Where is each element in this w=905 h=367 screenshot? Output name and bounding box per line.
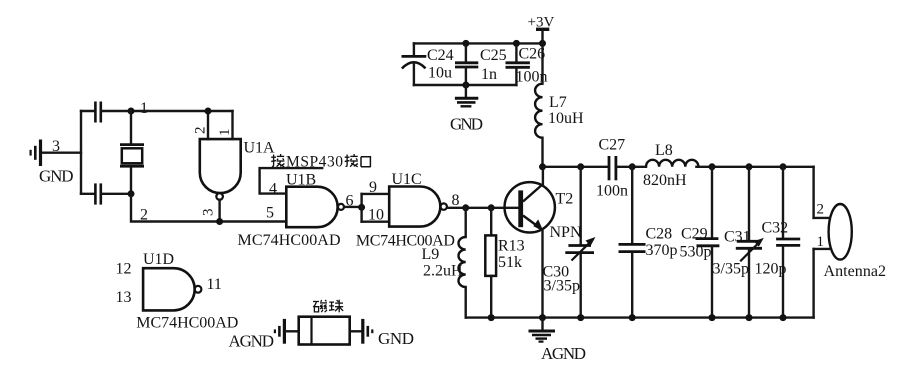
- wire node 2 down and right to U1B pin 5: [131, 194, 286, 222]
- wire L8 to antenna corner: [696, 166, 813, 168]
- node junction crystal bottom: [128, 190, 135, 197]
- ground GND below cap bank: [455, 85, 478, 106]
- svg-text:MC74HC00AD: MC74HC00AD: [238, 232, 341, 249]
- svg-text:T2: T2: [556, 191, 574, 208]
- svg-text:1: 1: [817, 234, 825, 250]
- svg-text:C29: C29: [681, 226, 708, 243]
- capacitor oscillator top (series in node 1): [95, 102, 100, 123]
- node junction C25 top: [462, 40, 469, 47]
- svg-text:AGND: AGND: [229, 332, 275, 351]
- wire bottom cap to crystal bottom: [101, 193, 131, 195]
- svg-text:NPN: NPN: [550, 224, 582, 241]
- svg-text:Antenna2: Antenna2: [824, 263, 887, 280]
- svg-text:51k: 51k: [498, 254, 522, 271]
- inductor L9: [459, 208, 466, 318]
- node junction U1A output on node 2: [216, 218, 223, 225]
- svg-text:5: 5: [266, 205, 274, 222]
- op-amp U1B nand gate body: [286, 187, 344, 228]
- antenna Antenna2: [814, 167, 852, 318]
- op-amp U1A nand gate body: [200, 139, 241, 200]
- inductor L7: [535, 43, 542, 166]
- capacitor C30 variable: [565, 167, 595, 318]
- op-amp U1C nand gate body: [389, 187, 447, 227]
- svg-text:1: 1: [140, 100, 148, 117]
- node junction C31 bottom: [746, 314, 753, 321]
- capacitor oscillator bottom (series in node 2): [95, 183, 100, 204]
- wire ground to left vertical: [42, 151, 81, 153]
- svg-text:C27: C27: [599, 137, 626, 154]
- svg-text:L9: L9: [422, 246, 440, 263]
- svg-text:10uH: 10uH: [548, 110, 584, 127]
- power +3V bar: [536, 28, 549, 31]
- node junction C30 bottom: [577, 314, 584, 321]
- label MSP430 interface chinese 接MSP430接口: [271, 154, 371, 171]
- wire node 1 top run: [81, 110, 95, 112]
- capacitor C26: [506, 43, 530, 85]
- wire C27 to L8: [616, 166, 646, 168]
- wire U1B pin 4 input with MSP430 stub: [260, 168, 323, 194]
- svg-text:2: 2: [140, 207, 148, 224]
- wire node 2 bottom run left: [81, 193, 95, 195]
- svg-text:3: 3: [201, 209, 217, 217]
- node junction C31 top: [746, 163, 753, 170]
- svg-text:8: 8: [452, 192, 460, 209]
- node junction C32 bottom: [780, 314, 787, 321]
- svg-text:530p: 530p: [680, 244, 712, 261]
- ground GND left of crystal: [31, 140, 41, 167]
- svg-text:3/35p: 3/35p: [544, 278, 580, 295]
- wire collector rail to C27: [543, 166, 609, 168]
- svg-text:C28: C28: [646, 226, 673, 243]
- svg-text:6: 6: [346, 193, 354, 210]
- wire U1C pin 9 input: [362, 193, 390, 195]
- svg-text:L7: L7: [549, 94, 567, 111]
- node junction C29 bottom: [709, 314, 716, 321]
- capacitor C31 variable: [736, 167, 764, 318]
- node junction C32 top: [780, 163, 787, 170]
- svg-text:12: 12: [116, 261, 132, 278]
- wire node 1 to U1A inputs: [101, 110, 233, 112]
- node junction +3V rail: [539, 40, 546, 47]
- svg-text:MSP430: MSP430: [286, 154, 343, 171]
- capacitor C27: [609, 156, 616, 180]
- node junction pin2 at node 1: [205, 108, 212, 115]
- svg-text:GND: GND: [378, 329, 414, 348]
- svg-text:100n: 100n: [596, 183, 628, 200]
- svg-text:U1B: U1B: [286, 172, 316, 189]
- op-amp U1D nand gate body: [143, 268, 201, 310]
- wire U1B output pin 6: [344, 206, 362, 208]
- wire cap bank bottom rail: [414, 84, 517, 86]
- wire +3V down to rail: [541, 31, 543, 44]
- wire U1A pin 1 input: [231, 111, 233, 139]
- inductor L8: [646, 160, 698, 167]
- svg-text:820nH: 820nH: [643, 172, 687, 189]
- svg-text:U1A: U1A: [244, 140, 276, 157]
- svg-text:1n: 1n: [481, 66, 497, 83]
- crystal Y1: [120, 111, 144, 194]
- ground GND sideways right of ferrite bead: [363, 319, 373, 344]
- svg-text:C25: C25: [480, 47, 507, 64]
- capacitor C32: [776, 167, 800, 318]
- svg-text:C26: C26: [519, 46, 546, 63]
- capacitor C28: [619, 167, 646, 318]
- svg-text:U1D: U1D: [143, 251, 174, 268]
- capacitor C29: [696, 167, 720, 318]
- svg-text:11: 11: [207, 276, 222, 293]
- svg-text:10u: 10u: [428, 65, 452, 82]
- wire cap bank left vertical: [413, 43, 415, 55]
- label ferrite bead chinese 磁珠: [313, 300, 343, 313]
- svg-text:2.2uH: 2.2uH: [423, 263, 463, 280]
- wire cap bank top rail: [414, 42, 543, 44]
- svg-text:L8: L8: [655, 142, 673, 159]
- wire AGND to ferrite bead: [286, 330, 299, 332]
- svg-text:3/35p: 3/35p: [713, 261, 749, 278]
- svg-text:C24: C24: [427, 47, 454, 64]
- svg-text:GND: GND: [39, 167, 74, 186]
- transistor T2: [505, 167, 555, 318]
- svg-text:10: 10: [368, 207, 384, 224]
- wire U1A pin 2 input: [207, 111, 209, 139]
- svg-text:370p: 370p: [646, 242, 678, 259]
- svg-text:4: 4: [269, 181, 277, 198]
- resistor R13: [485, 208, 496, 318]
- node junction C29 top: [709, 163, 716, 170]
- svg-text:MC74HC00AD: MC74HC00AD: [356, 233, 455, 250]
- capacitor C25: [455, 43, 478, 85]
- ground AGND below emitter: [529, 318, 556, 342]
- svg-text:13: 13: [116, 289, 132, 306]
- node junction L7 collector: [539, 163, 546, 170]
- node junction C28 bottom: [629, 314, 636, 321]
- node junction C26 top: [513, 40, 520, 47]
- wire U1C input jog vertical: [360, 194, 362, 222]
- svg-text:GND: GND: [450, 115, 483, 134]
- svg-text:U1C: U1C: [392, 171, 422, 188]
- node junction C30 top: [577, 163, 584, 170]
- node junction C28 top: [629, 163, 636, 170]
- capacitor C24 polarized: [402, 56, 427, 85]
- svg-text:AGND: AGND: [541, 344, 586, 363]
- svg-text:2: 2: [817, 202, 825, 218]
- wire U1C output pin 8 to base node: [447, 207, 518, 209]
- svg-text:9: 9: [369, 179, 377, 196]
- wire bottom rail: [466, 316, 814, 318]
- svg-text:C32: C32: [762, 220, 789, 237]
- svg-text:MC74HC00AD: MC74HC00AD: [136, 315, 238, 332]
- svg-text:1: 1: [217, 129, 233, 137]
- svg-text:C31: C31: [724, 229, 751, 246]
- node junction 6: [358, 204, 365, 211]
- node junction R13 top: [488, 204, 495, 211]
- wire U1C pin 10 input: [362, 220, 390, 222]
- node junction L9 top: [462, 204, 469, 211]
- wire ferrite bead to GND: [350, 330, 362, 332]
- wire left vertical of oscillator: [80, 111, 82, 194]
- svg-text:120p: 120p: [755, 261, 787, 278]
- svg-text:R13: R13: [498, 238, 525, 255]
- node junction GND tap: [462, 82, 469, 89]
- svg-text:2: 2: [193, 127, 209, 135]
- ferrite bead 磁珠: [299, 317, 350, 345]
- node junction emitter AGND: [539, 314, 546, 321]
- ground AGND sideways left of ferrite bead: [275, 319, 285, 344]
- node 1 junction at crystal top: [128, 108, 135, 115]
- node junction R13 bottom: [488, 314, 495, 321]
- wire U1A output pin 3 down: [218, 200, 220, 222]
